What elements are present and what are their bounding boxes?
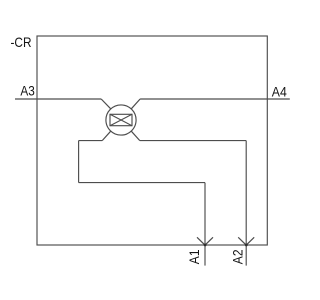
wire diagonal top-left to coil <box>101 99 111 109</box>
wire lower horizontal <box>79 182 205 184</box>
wire diagonal bottom-right from coil <box>131 131 140 140</box>
svg-text:A2: A2 <box>229 249 245 264</box>
coil U1 crossed rectangle <box>110 114 132 125</box>
arrowhead A1 <box>197 237 213 245</box>
junction dot at A1 arrow tip <box>204 244 207 247</box>
wire A2 vertical <box>245 141 247 266</box>
wire A3 horizontal <box>15 98 101 100</box>
svg-text:A4: A4 <box>272 83 287 99</box>
wire diagonal bottom-left from coil <box>102 131 111 140</box>
svg-text:A1: A1 <box>186 249 202 264</box>
svg-text:-CR: -CR <box>11 34 32 50</box>
arrowhead A2 <box>238 237 254 245</box>
wire diagonal top-right from coil <box>131 99 140 109</box>
wire A1 vertical <box>204 183 206 266</box>
svg-text:A3: A3 <box>20 82 35 98</box>
junction dot at A2 arrow tip <box>245 244 248 247</box>
wire bottom-left horizontal <box>79 140 103 142</box>
coil U1 circle <box>106 105 136 135</box>
wire left vertical drop <box>78 141 80 183</box>
wire bottom-right horizontal <box>140 140 246 142</box>
wire A4 horizontal <box>140 98 290 100</box>
device outline box <box>37 36 267 245</box>
